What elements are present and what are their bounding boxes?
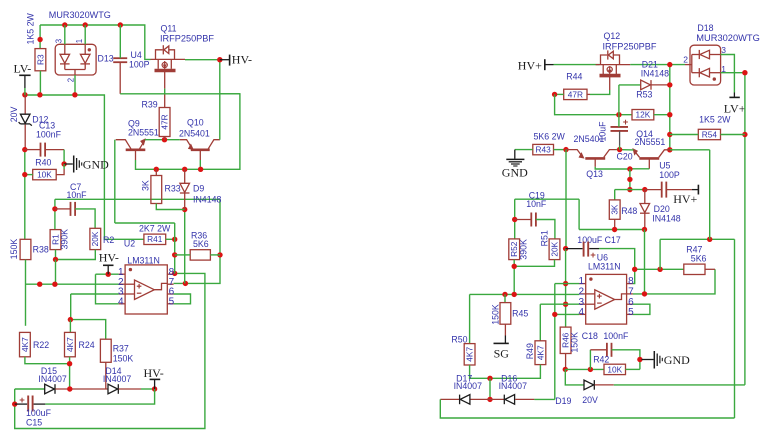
resistor — [560, 327, 571, 353]
junction D9 bottom — [182, 207, 187, 212]
wire R40 corner to GND node — [63, 164, 65, 169]
junction rail 12K — [667, 112, 672, 117]
capacitor C13 plates — [41, 143, 46, 157]
resistor — [698, 129, 720, 139]
wire C18 left lead — [590, 349, 607, 351]
svg-text:U2: U2 — [124, 238, 135, 248]
junction C18 left — [588, 367, 593, 372]
mosfet Q11 symbol — [151, 45, 186, 88]
svg-text:2N5551: 2N5551 — [128, 128, 159, 138]
wire top rail LV- net — [40, 25, 150, 59]
svg-text:150K: 150K — [570, 332, 580, 353]
wire C13 corner to GND node — [63, 150, 65, 164]
value IN4007 for D16 — [499, 381, 527, 391]
net flag HV- at pin1 — [99, 250, 119, 274]
ground flag GND left — [64, 156, 109, 173]
svg-text:R44: R44 — [566, 71, 582, 81]
transistor Q10 symbol — [180, 140, 220, 160]
svg-text:Q12: Q12 — [604, 31, 621, 41]
name label R38 — [33, 245, 49, 255]
wire C17 to pin8 — [599, 249, 635, 284]
transistor Q14 symbol — [632, 148, 669, 169]
svg-text:R45: R45 — [512, 309, 528, 319]
svg-text:47R: 47R — [160, 114, 170, 129]
svg-text:LV+: LV+ — [724, 102, 746, 116]
wire pin1 — [555, 283, 579, 285]
wire HV- to Q10 collector — [219, 60, 221, 140]
value IN4148 for D9 — [193, 194, 221, 204]
svg-text:4K7: 4K7 — [65, 337, 75, 352]
wire to HV- junction — [141, 388, 155, 390]
wire R43 left lead — [515, 149, 533, 151]
svg-text:100P: 100P — [659, 170, 680, 180]
svg-text:IN4148: IN4148 — [193, 194, 221, 204]
wire to D19 — [565, 369, 584, 385]
junction R45 top — [502, 292, 507, 297]
svg-text:2: 2 — [683, 55, 688, 65]
svg-text:D13: D13 — [98, 53, 114, 63]
name label R47 — [686, 244, 702, 254]
svg-text:HV+: HV+ — [518, 58, 542, 72]
diode D19 symbol — [584, 380, 594, 390]
name label R50 — [451, 334, 467, 344]
wire riser to pin2 rail — [55, 260, 57, 285]
svg-text:R24: R24 — [79, 340, 95, 350]
resistor — [500, 303, 511, 325]
value 2N5401 for Q13 — [574, 134, 605, 144]
value IN4007 for D15 — [38, 374, 66, 384]
junction C19 left — [512, 217, 517, 222]
svg-text:390K: 390K — [60, 229, 70, 250]
wire pin1 pin4 long vertical — [554, 284, 556, 400]
wire riser to R46 — [565, 249, 567, 328]
pin numbers U2 right — [169, 267, 175, 308]
svg-text:GND: GND — [664, 353, 690, 367]
wire R36 left lead — [175, 254, 191, 256]
resistor — [35, 49, 46, 71]
diode D17 symbol — [460, 395, 470, 405]
wire R33 top lead — [155, 169, 157, 175]
wire R44 right lead — [587, 93, 590, 95]
value 100P for U4 — [129, 60, 150, 70]
name label C19 — [529, 190, 545, 200]
ground flag GND mid — [502, 150, 528, 180]
wire R40 right lead — [56, 169, 64, 175]
dual diode D18 body — [685, 45, 721, 85]
svg-text:IN4007: IN4007 — [454, 381, 482, 391]
wire Q14 collector drop — [709, 150, 711, 240]
svg-text:GND: GND — [83, 157, 109, 171]
name label D13 — [98, 53, 114, 63]
svg-text:4K7: 4K7 — [20, 337, 30, 352]
junction pin7 D20 — [642, 291, 647, 296]
svg-text:20K: 20K — [549, 241, 559, 256]
value IN4007 for D17 — [454, 381, 482, 391]
value 150K for R38 — [9, 239, 19, 260]
wire D12 to C13 — [24, 125, 26, 150]
wire D14 cathode lead — [119, 388, 141, 390]
resistor — [535, 341, 546, 365]
junction rail R54 — [667, 132, 672, 137]
name label R48 — [621, 206, 637, 216]
wire pin5 pin6 loop — [174, 294, 191, 304]
value 5K6 for R36 — [193, 239, 209, 249]
junction between diodes — [67, 386, 72, 391]
svg-text:D18: D18 — [697, 23, 713, 33]
capacitor C17 symbol — [566, 242, 599, 261]
wire left column C13/R40/R38 — [24, 150, 26, 240]
junction D20 bottom — [642, 227, 647, 232]
wire C18 left riser — [589, 350, 591, 370]
name label D9 — [193, 183, 204, 193]
diode D21 symbol — [641, 80, 651, 90]
value 1K5 2W for R3 — [26, 13, 36, 45]
value 100uF for C15 — [26, 408, 52, 418]
value IN4148 for D21 — [641, 69, 669, 79]
junction pin2 rail b — [52, 282, 57, 287]
svg-text:1K5 2W: 1K5 2W — [699, 115, 731, 125]
resistor — [100, 339, 111, 362]
junction R54 right — [742, 132, 747, 137]
wire R46 bottom lead — [565, 354, 567, 370]
wire to R39 top — [164, 94, 166, 108]
pin numbers U6 left — [578, 276, 584, 318]
wire C7 right lead to R2 — [75, 209, 95, 228]
net flag HV+ right — [673, 185, 698, 206]
net label MUR3020WTG — [49, 10, 111, 20]
svg-text:4K7: 4K7 — [535, 345, 545, 360]
name label D20 — [654, 204, 670, 214]
svg-text:20K: 20K — [90, 231, 100, 246]
junction R40 left — [22, 172, 27, 177]
value 150K for R37 — [113, 353, 134, 363]
junction pin7 D9 — [183, 281, 188, 286]
junction rail Q14 collector — [667, 147, 672, 152]
junction R33 top — [154, 167, 159, 172]
name label Q9 — [128, 119, 140, 129]
resistor — [159, 108, 170, 137]
wire U4 to corner — [120, 93, 240, 95]
wire C7 left riser — [54, 199, 56, 229]
name label R49 — [525, 343, 535, 359]
wire HV+ to Q12 — [554, 64, 600, 66]
name label U2 — [124, 238, 135, 248]
name label Q10 — [187, 117, 204, 127]
value 1K5 2W for R54 — [699, 115, 731, 125]
svg-text:MUR3020WTG: MUR3020WTG — [696, 33, 760, 43]
svg-text:100P: 100P — [129, 60, 150, 70]
value IN4148 for D20 — [652, 213, 680, 223]
value 150K for R45 — [491, 304, 501, 325]
svg-text:2N5551: 2N5551 — [635, 137, 666, 147]
junction rail pin2 — [667, 62, 672, 67]
wire R44 left lead — [555, 93, 564, 95]
svg-text:3: 3 — [55, 39, 64, 43]
resistor — [564, 89, 587, 99]
value MUR3020WTG for D18 — [696, 33, 760, 43]
svg-text:IN4007: IN4007 — [103, 374, 131, 384]
junction output — [707, 237, 712, 242]
pin 2 label of D13 — [67, 78, 76, 82]
wire pin8 to bottom rail — [15, 273, 205, 428]
diode D16 symbol — [504, 395, 514, 405]
wire R40 left lead — [25, 174, 33, 176]
svg-text:+: + — [590, 250, 596, 261]
capacitor C7 plates — [71, 202, 76, 216]
wire R48 D20 top — [615, 189, 645, 191]
resistor — [20, 239, 31, 259]
name label D21 — [642, 60, 658, 70]
value IN4007 for D14 — [103, 374, 131, 384]
wire U4 top lead — [119, 25, 121, 58]
wire riser to long net — [578, 199, 580, 229]
pin 1 label of D18 — [721, 64, 726, 74]
svg-text:Q13: Q13 — [586, 169, 603, 179]
svg-text:1: 1 — [75, 39, 84, 43]
svg-text:IN4007: IN4007 — [38, 374, 66, 384]
name label D14 — [105, 366, 121, 376]
wire C19 right lead — [536, 220, 555, 239]
resistor — [190, 250, 210, 260]
svg-text:5K6: 5K6 — [193, 239, 209, 249]
value 2N5401 for Q10 — [179, 128, 210, 138]
wire down to diode wire — [489, 378, 491, 399]
value 100P for U5 — [659, 170, 680, 180]
name label C15 — [26, 418, 42, 428]
name label D17 — [456, 373, 472, 383]
wire Q12 to D18 pin2 — [630, 64, 685, 66]
capacitor C15 symbol — [15, 395, 46, 412]
zener diode D12 — [24, 95, 26, 114]
junction C15 left — [12, 401, 17, 406]
wire D15 to D14 — [55, 388, 108, 390]
value 5K6 2W for R43 — [534, 132, 566, 142]
wire R46 to R42 — [565, 368, 604, 370]
wire R50 R49 bottoms — [470, 365, 541, 379]
junction rail D21 — [667, 82, 672, 87]
junction base rail — [627, 166, 632, 171]
wire D19 cathode lead — [595, 384, 614, 386]
wire pin5 pin6 loop U6 — [633, 304, 650, 314]
value 2K7 2W for R41 — [139, 223, 171, 233]
junction R1 bottom — [53, 257, 58, 262]
name label Q13 — [586, 169, 603, 179]
transistor Q9 symbol — [116, 138, 146, 160]
wire C13 left lead — [25, 149, 41, 151]
resistor — [684, 264, 705, 274]
svg-text:R50: R50 — [451, 334, 467, 344]
wire R44 to 12K — [555, 94, 632, 114]
resistor — [33, 169, 57, 179]
wire D13 pin1 lead — [84, 25, 86, 44]
wire 12K right lead — [654, 114, 670, 116]
resistor — [604, 364, 626, 374]
svg-text:R53: R53 — [636, 90, 652, 100]
wire D21 left lead — [619, 84, 641, 86]
net flag HV+ top — [518, 58, 554, 72]
junction R3 bottom — [37, 92, 42, 97]
resistor — [20, 332, 31, 356]
junction C17 left — [563, 246, 568, 251]
resistor — [549, 239, 560, 260]
junction D13 pin1 — [83, 22, 88, 27]
name label Q14 — [636, 129, 653, 139]
junction pin2 rail a — [37, 282, 42, 287]
comparator U2 body — [119, 265, 174, 314]
svg-text:3K: 3K — [610, 204, 620, 215]
resistor — [50, 230, 61, 250]
junction Q10 base — [198, 167, 203, 172]
svg-text:10K: 10K — [607, 364, 622, 374]
svg-text:4: 4 — [578, 307, 584, 318]
name label R37 — [113, 344, 129, 354]
name label D18 — [697, 23, 713, 33]
name label C20 — [617, 152, 633, 162]
name label R33 — [165, 184, 181, 194]
name label R2 — [103, 235, 114, 245]
junction GND node — [61, 161, 66, 166]
wire long net pin7 horizontal — [55, 198, 220, 200]
wire R41 to R36 riser — [174, 223, 176, 273]
net flag LV+ — [724, 93, 746, 116]
wire D20 bottom lead — [644, 213, 646, 229]
svg-text:5K6: 5K6 — [691, 254, 707, 264]
svg-text:Q11: Q11 — [161, 23, 177, 33]
junction C7 left — [52, 206, 57, 211]
name label R42 — [593, 355, 609, 365]
wire base rail — [136, 94, 240, 170]
wire R48 bottom lead — [614, 219, 616, 229]
wire D18 pin1 long vertical — [721, 73, 745, 385]
value 5K6 for R47 — [691, 254, 707, 264]
svg-text:R40: R40 — [35, 157, 51, 167]
resistor — [609, 200, 620, 219]
wire pin8 R47 left — [635, 268, 684, 270]
net flag HV- bottom — [144, 366, 164, 389]
wire C7 left lead — [55, 208, 71, 210]
pin 2 label of D18 — [683, 55, 688, 65]
wire output horizontal — [660, 238, 734, 240]
svg-text:IRFP250PBF: IRFP250PBF — [160, 34, 215, 44]
wire Q11 drain to HV- — [185, 59, 220, 61]
pin numbers U2 left — [118, 267, 124, 308]
svg-text:U5: U5 — [659, 161, 670, 171]
resistor — [90, 228, 101, 249]
wire U4 bottom lead — [119, 62, 121, 94]
svg-text:GND: GND — [502, 165, 528, 179]
junction at R48 wire — [627, 187, 632, 192]
wire D19 to right vertical — [614, 384, 745, 386]
svg-text:4: 4 — [118, 296, 124, 307]
svg-text:R41: R41 — [147, 234, 163, 244]
svg-text:HV+: HV+ — [673, 192, 697, 206]
svg-text:R43: R43 — [536, 145, 552, 155]
name label U5 — [659, 161, 670, 171]
svg-text:100uF: 100uF — [26, 408, 52, 418]
svg-text:R54: R54 — [702, 129, 718, 139]
value label LM311N for U6 — [588, 262, 621, 272]
wire R39 bottom lead — [164, 137, 166, 140]
svg-text:47R: 47R — [568, 89, 583, 99]
diode D9 — [184, 169, 186, 183]
svg-text:5: 5 — [628, 307, 634, 318]
junction R47 left — [657, 267, 662, 272]
svg-text:10nF: 10nF — [67, 190, 88, 200]
capacitor C18 plates — [607, 343, 612, 357]
junction R41 right — [172, 237, 177, 242]
wire R47 right lead — [705, 268, 715, 270]
name label C13 — [39, 121, 55, 131]
svg-text:R2: R2 — [103, 235, 114, 245]
junction R36 right — [217, 252, 222, 257]
value 150K for R46 — [570, 332, 580, 353]
svg-text:D19: D19 — [555, 396, 571, 406]
name label U6 — [597, 252, 608, 262]
wire pin2 rail — [26, 283, 119, 285]
name label C18 — [582, 331, 598, 341]
name label D15 — [41, 366, 57, 376]
resistor — [533, 144, 554, 154]
wire D13 pin3 lead — [64, 25, 66, 44]
svg-text:HV-: HV- — [99, 250, 119, 264]
wire R36 right lead — [210, 254, 220, 256]
mosfet Q12 symbol — [596, 50, 631, 90]
name label R24 — [79, 340, 95, 350]
wire R22 bottom — [25, 357, 70, 364]
name label U4 — [131, 50, 142, 60]
resistor — [464, 344, 475, 365]
junction R50 R49 — [487, 376, 492, 381]
wire pin3 to R37 — [71, 294, 106, 339]
junction D18 pin1 — [742, 70, 747, 75]
wire Q13 base to rail — [595, 167, 630, 169]
capacitor U5 100P — [662, 182, 667, 198]
junction D9 top — [182, 167, 187, 172]
wire U5 left lead — [645, 189, 662, 191]
svg-text:R49: R49 — [525, 343, 535, 359]
wire R42 right lead — [626, 368, 640, 370]
value 3K for R33 — [140, 180, 150, 191]
wire D21 left riser — [618, 85, 620, 115]
svg-text:IN4148: IN4148 — [652, 213, 680, 223]
junction HV- bottom — [152, 386, 157, 391]
svg-text:+: + — [623, 117, 629, 128]
svg-text:10uF: 10uF — [598, 121, 608, 142]
svg-text:2K7 2W: 2K7 2W — [139, 223, 171, 233]
value 390K for R52 — [519, 239, 529, 260]
wire to D17 cathode — [440, 398, 459, 400]
junction D20 top U5 — [642, 187, 647, 192]
wire Q9 Q10 emitters — [145, 139, 180, 141]
svg-text:MUR3020WTG: MUR3020WTG — [49, 10, 111, 20]
svg-text:LM311N: LM311N — [588, 262, 621, 272]
wire R24 top lead — [69, 320, 71, 333]
wire Q14 base to rail — [630, 168, 649, 170]
comparator U6 body — [579, 274, 633, 324]
wire pin3 — [71, 293, 119, 295]
svg-text:LM311N: LM311N — [127, 256, 160, 266]
resistor — [65, 332, 76, 356]
junction R52 riser — [512, 292, 517, 297]
wire D9 bottom lead — [184, 193, 186, 210]
junction pin8 riser — [632, 267, 637, 272]
wire Q9 collector drop — [114, 140, 116, 223]
svg-text:390K: 390K — [519, 239, 529, 260]
junction R39 bottom — [162, 137, 167, 142]
svg-text:C18: C18 — [582, 331, 598, 341]
wire D18 pin3 to LV+ — [721, 55, 735, 93]
svg-text:100nF: 100nF — [603, 331, 629, 341]
